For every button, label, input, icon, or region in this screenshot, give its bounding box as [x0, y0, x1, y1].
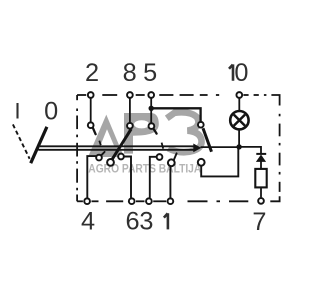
contact stub pole1 bottom	[101, 152, 104, 155]
wire pole4 bottom to lamp junction	[201, 148, 238, 177]
indicator lamp	[230, 111, 248, 129]
svg-text:6: 6	[126, 208, 140, 236]
contact stub pole3 top	[154, 129, 157, 134]
wire junction to diode branch	[239, 147, 261, 154]
contact circle pole4 top	[198, 122, 204, 128]
wire terminal 5 stem	[150, 98, 152, 106]
wire terminal 8 stem	[129, 98, 131, 122]
switch lever dashed position I	[13, 124, 30, 158]
svg-text:I: I	[14, 99, 20, 124]
wire arrow to lamp junction	[201, 146, 240, 148]
contact circle pole2 top	[127, 123, 133, 129]
terminal 3	[146, 198, 152, 204]
moving contact tick pole1	[99, 141, 101, 146]
actuating rod lower line	[38, 149, 193, 151]
terminal 10	[236, 92, 242, 98]
wire terminal 10 stem	[238, 98, 240, 110]
actuating rod upper line	[40, 145, 194, 147]
contact circle pole2 bottom right	[118, 154, 124, 160]
moving contact arm pole4	[203, 128, 212, 152]
watermark logo letter A	[88, 115, 124, 157]
wire resistor to terminal 7	[260, 188, 262, 197]
moving contact arm pole2	[112, 129, 131, 160]
pivot contact circle pole2	[107, 159, 114, 166]
svg-text:5: 5	[143, 59, 157, 87]
wire terminal 3 riser	[150, 157, 156, 198]
svg-text:4: 4	[81, 208, 95, 236]
wire terminal 6 riser	[124, 157, 131, 198]
contact stub pole1 top	[93, 128, 96, 134]
enclosure border top	[77, 95, 280, 106]
label 10	[229, 64, 233, 80]
wire terminal 1 riser	[169, 167, 171, 198]
watermark logo letter B	[167, 112, 202, 152]
resistor R1	[255, 169, 266, 188]
terminal 5	[148, 92, 154, 98]
svg-text:7: 7	[252, 208, 266, 236]
contact circle pole1 top	[88, 122, 94, 128]
svg-text:0: 0	[44, 98, 58, 126]
terminal 7	[258, 198, 264, 204]
terminal 6	[129, 198, 135, 204]
terminal 2	[88, 92, 94, 98]
pivot contact circle pole3	[168, 159, 175, 166]
terminal 8	[127, 92, 133, 98]
terminal 1	[168, 198, 174, 204]
contact circle pole4 bottom	[198, 159, 205, 166]
junction node terminal 5	[149, 106, 154, 111]
svg-text:AGRO PARTS BALTIJA: AGRO PARTS BALTIJA	[88, 162, 201, 176]
contact circle pole3 bottom	[157, 154, 163, 160]
label 1	[164, 213, 168, 229]
junction node lamp	[236, 144, 241, 149]
svg-text:2: 2	[85, 59, 99, 87]
wire junction5 down	[150, 108, 152, 123]
wire junction5 to pole4 top	[151, 108, 200, 121]
switch lever solid position 0	[31, 127, 47, 163]
wire terminal 4 riser	[87, 156, 96, 198]
enclosure border left	[76, 95, 78, 201]
watermark logo letter P	[124, 113, 159, 154]
moving contact tick pole3	[162, 143, 164, 149]
wire lamp to junction	[238, 130, 240, 145]
actuating rod arrowhead	[193, 144, 201, 153]
svg-text:0: 0	[234, 59, 248, 87]
contact circle pole1 bottom	[96, 155, 102, 161]
enclosure border right	[270, 114, 279, 202]
enclosure border bottom	[77, 200, 248, 202]
contact stub pole3 pivot	[174, 153, 177, 160]
svg-text:3: 3	[139, 208, 153, 236]
contact circle pole3 top	[149, 123, 155, 129]
svg-text:8: 8	[123, 59, 137, 87]
diode D1	[256, 154, 266, 169]
wire terminal 2 stem	[90, 98, 92, 122]
terminal 4	[84, 198, 90, 204]
